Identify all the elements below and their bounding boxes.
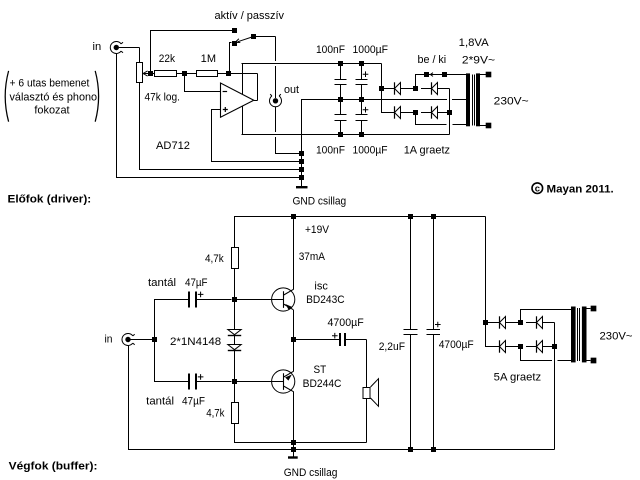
wire Q2 collector down <box>293 392 295 443</box>
wire down to speaker <box>366 340 368 388</box>
wire bottom return line <box>234 442 367 444</box>
svg-text:+19V: +19V <box>305 224 330 236</box>
wire down to ground bar <box>293 443 295 457</box>
wire output node to C9 <box>293 339 339 341</box>
T1 core line <box>474 75 476 126</box>
wire <box>438 112 450 114</box>
wire bridge2 right side down to ground rail <box>554 323 556 450</box>
svg-text:out: out <box>284 84 299 96</box>
ground bar (GND csillag, buffer) <box>288 456 298 458</box>
svg-text:4,7k: 4,7k <box>205 253 224 265</box>
wire <box>526 346 537 348</box>
resistor R3 4,7k body <box>232 248 239 269</box>
C2 polarity + <box>363 71 369 77</box>
wire to C5 <box>154 299 188 301</box>
wire row1 right <box>543 322 555 324</box>
node rail/C7 <box>408 214 413 219</box>
wire <box>506 346 521 348</box>
transformer T2 secondary winding bar <box>571 307 576 363</box>
wire AC2 toward transformer T1 <box>415 124 447 126</box>
wire +19V top rail <box>234 216 486 218</box>
wire center tap to transformer (after hop) <box>452 99 466 101</box>
diode D3 (1A graetz) <box>395 106 401 118</box>
svg-text:AD712: AD712 <box>156 140 190 152</box>
wire op-amp + input <box>211 109 221 111</box>
capacitor C9 4700uF plates <box>339 333 341 346</box>
diode D7 (5A graetz) <box>500 316 506 328</box>
node bridge B1 AC2 junction <box>413 110 418 115</box>
svg-text:1000µF: 1000µF <box>353 144 388 156</box>
wire AC2 down <box>415 113 417 125</box>
svg-text:2*1N4148: 2*1N4148 <box>170 336 221 348</box>
svg-text:GND csillag: GND csillag <box>293 196 347 208</box>
wire Q1 emitter down <box>293 310 295 340</box>
wire feedback top <box>228 73 258 75</box>
wire T1 primary bottom <box>480 125 486 127</box>
ground bar (GND csillag) <box>296 186 308 188</box>
wire out shield down (upper) <box>275 107 277 132</box>
node GND star junction <box>299 151 304 156</box>
wire cap lead <box>361 121 363 135</box>
node GND star junction <box>299 175 304 180</box>
svg-text:4700µF: 4700µF <box>328 317 364 329</box>
wire bridge row2 <box>381 112 395 114</box>
wire cap lead <box>340 64 342 80</box>
wire down to out jack (hop over +9V rail) <box>275 66 277 98</box>
svg-text:230V~: 230V~ <box>494 96 529 108</box>
wire AC2 down <box>520 347 522 361</box>
capacitor C8 4700uF plates <box>427 329 441 331</box>
node cap on -9V rail <box>338 132 343 137</box>
wire wiper up to switch <box>150 31 152 72</box>
wire cap lead <box>340 85 342 100</box>
capacitor C7 2,2uF plates <box>404 329 418 331</box>
svg-text:5A graetz: 5A graetz <box>494 371 542 383</box>
wire D6 to Q2 base node <box>234 351 236 382</box>
wire cap lead <box>340 100 342 115</box>
diode D1 (1A graetz) <box>395 82 401 94</box>
wire AC1 up <box>520 310 522 323</box>
C4 polarity + <box>363 107 369 113</box>
wire row2 right <box>543 346 553 348</box>
terminal T1 mains top <box>486 72 492 78</box>
wire J1 ground to star <box>116 177 302 179</box>
wire switch b down to R2 node <box>229 43 231 72</box>
svg-text:isc: isc <box>314 280 328 292</box>
wire base node to Q1 <box>234 299 272 301</box>
svg-text:4,7k: 4,7k <box>206 408 225 420</box>
svg-text:c: c <box>535 184 540 195</box>
capacitor C2 1000uF plates <box>356 79 368 81</box>
svg-text:4700µF: 4700µF <box>439 339 474 351</box>
wire J1 shield down <box>116 54 118 178</box>
svg-text:in: in <box>93 41 102 53</box>
switch SW2 pole <box>442 72 447 77</box>
resistor R1 22k body <box>155 71 177 77</box>
terminal T1 mains bottom <box>486 123 492 129</box>
C6 polarity + <box>198 374 204 380</box>
wire J3 shield down to ground rail <box>128 346 130 450</box>
wire +9V rail <box>242 63 382 65</box>
transformer T1 secondary winding bar <box>466 73 470 126</box>
wire GND mid rail (center tap) <box>301 99 447 101</box>
wire +rail down to bridge B1 <box>381 64 383 113</box>
wire T2 primary bottom <box>586 360 591 362</box>
diode D2 (1A graetz) <box>432 82 438 94</box>
svg-text:230V~: 230V~ <box>600 330 633 342</box>
node input split <box>152 337 157 342</box>
wire J3 to split node <box>131 339 155 341</box>
transformer T1 primary winding bar <box>476 73 480 126</box>
switch SW2 be/ki contact <box>424 72 429 77</box>
capacitor C6 47uF tantal plates <box>188 373 190 389</box>
wire out ground to star <box>275 153 302 155</box>
node bridge B2 AC2 junction <box>518 344 523 349</box>
switch SW1 contact b (aktiv) <box>232 41 237 46</box>
wire <box>421 88 432 90</box>
svg-text:Mayan 2011.: Mayan 2011. <box>547 184 614 196</box>
node Q1 base junction <box>232 297 237 302</box>
T2 core line <box>577 308 579 361</box>
node R1/R2 junction <box>182 71 187 76</box>
wire R4 down <box>234 423 236 443</box>
wire AC1 to transformer T2 <box>520 309 571 311</box>
pot wiper arrow <box>143 71 150 76</box>
node cap on GND rail <box>338 97 343 102</box>
wire <box>153 73 155 75</box>
wire pot bottom down <box>139 83 141 170</box>
svg-text:be / ki: be / ki <box>418 54 447 66</box>
node feedback junction <box>226 71 231 76</box>
wire ground bottom rail <box>128 449 555 451</box>
node Q2 base junction <box>232 379 237 384</box>
wire op-amp output <box>254 100 258 102</box>
svg-text:GND csillag: GND csillag <box>284 467 338 479</box>
wire pot ground to star <box>139 169 302 171</box>
wire T2 primary top <box>586 308 591 310</box>
transformer T2 primary winding bar <box>582 307 587 363</box>
svg-text:BD244C: BD244C <box>303 378 342 390</box>
node bridge B1 AC1 junction <box>413 86 418 91</box>
node GND star junction <box>299 159 304 164</box>
wire T1 primary top <box>480 74 486 76</box>
node C7 on ground rail <box>408 447 413 452</box>
capacitor C5 47uF tantal plates <box>188 291 231 307</box>
svg-text:2,2uF: 2,2uF <box>379 341 406 353</box>
C5 polarity + <box>198 292 204 298</box>
node bridge B1 DC- junction <box>447 110 452 115</box>
node cap on -9V rail <box>359 132 364 137</box>
wire down to out jack (upper) <box>275 37 277 62</box>
wire <box>401 112 416 114</box>
svg-text:+ 6 utas bemenet: + 6 utas bemenet <box>10 77 90 89</box>
connector J3 "in" (buffer input) <box>122 334 135 346</box>
wire C8 bottom lead <box>433 335 435 450</box>
wire C7 2,2uF top lead <box>410 217 412 330</box>
wire <box>506 322 521 324</box>
diode D5 1N4148 <box>228 330 241 336</box>
wire + input ground down <box>211 110 213 162</box>
wire cap lead <box>361 64 363 80</box>
copyright symbol <box>532 183 543 194</box>
wire <box>421 112 432 114</box>
diode D9 (5A graetz) <box>500 340 506 352</box>
svg-text:1A graetz: 1A graetz <box>404 144 450 156</box>
wire C9 to speaker <box>346 339 367 341</box>
resistor R2 1M body <box>197 71 218 77</box>
wire row1 right <box>438 88 450 90</box>
diode D10 (5A graetz) <box>537 340 543 352</box>
wire <box>217 73 229 75</box>
node output junction <box>291 337 296 342</box>
diode D8 (5A graetz) <box>537 316 543 328</box>
wire switch to transformer T1 <box>429 74 467 76</box>
wire bridge2 row1 <box>485 322 500 324</box>
node on ground rail <box>291 447 296 452</box>
wire C8 4700uF top lead <box>433 217 435 330</box>
svg-text:1000µF: 1000µF <box>353 44 389 56</box>
node bridge B2 DC+ junction <box>483 320 488 325</box>
wire out shield down (hop over -9V rail) <box>275 137 277 154</box>
svg-text:47µF: 47µF <box>182 396 205 408</box>
wire stub <box>229 42 232 44</box>
node cap on +9V rail <box>359 61 364 66</box>
resistor R4 4,7k body <box>232 403 239 424</box>
svg-text:Előfok (driver):: Előfok (driver): <box>8 193 92 205</box>
svg-text:47µF: 47µF <box>185 277 208 289</box>
connector J1 "in" (preamp input) <box>110 42 123 54</box>
wire <box>401 88 416 90</box>
svg-text:tantál: tantál <box>146 396 174 408</box>
wire AC2 to T1 (after hop) <box>452 124 466 126</box>
wire speaker return down <box>366 398 368 443</box>
svg-text:22k: 22k <box>159 53 176 65</box>
wire base node to Q2 <box>234 381 272 383</box>
potentiometer P1 47k log body <box>137 63 143 83</box>
wire AC2 toward transformer T2 <box>520 360 552 362</box>
transistor Q1 BD243C (isc) <box>272 288 295 311</box>
wire AC2 to T2 (after hop) <box>558 360 572 362</box>
svg-text:tantál: tantál <box>148 277 176 289</box>
switch SW1 pole <box>251 34 256 39</box>
wire GND star vertical <box>301 100 303 187</box>
wire to be/ki switch <box>415 74 426 76</box>
wire Q1 base node to D5 <box>234 300 236 330</box>
wire junction down <box>184 74 186 92</box>
node C8 on ground rail <box>431 447 436 452</box>
capacitor C4 1000uF plates <box>356 114 368 116</box>
svg-text:1,8VA: 1,8VA <box>459 37 490 49</box>
wire R1-R2 <box>176 73 196 75</box>
transistor Q2 BD244C (ST) <box>272 370 295 393</box>
svg-text:ST: ST <box>314 364 327 376</box>
wire op-amp supply vertical (V+/V-) <box>242 64 244 135</box>
node rail/Q1 collector <box>291 214 296 219</box>
svg-text:Végfok (buffer):: Végfok (buffer): <box>9 461 98 473</box>
wire -9V rail <box>242 134 450 136</box>
wire to op-amp inverting input <box>184 91 221 93</box>
svg-text:aktív / passzív: aktív / passzív <box>215 10 285 22</box>
wire C6 to Q2 base node <box>197 381 232 383</box>
note bracket left <box>5 71 8 122</box>
wire R3 to Q1 base node <box>234 268 236 300</box>
node bridge B2 AC1 junction <box>518 320 523 325</box>
switch SW2 arrow <box>430 73 433 77</box>
terminal T2 mains top <box>591 306 597 312</box>
wire bridge row1 <box>381 88 395 90</box>
node bridge B2 DC- junction <box>552 344 557 349</box>
switch SW1 contact a (passziv) <box>232 28 237 33</box>
wire bridge2 row2 <box>485 346 500 348</box>
svg-text:választó és phono: választó és phono <box>10 91 98 103</box>
node rail/C8 <box>431 214 436 219</box>
terminal T2 mains bottom <box>591 358 597 364</box>
wire bridge right side down to -9V rail <box>449 89 451 135</box>
T1 core line <box>472 75 474 126</box>
svg-text:fokozat: fokozat <box>34 105 69 117</box>
svg-text:2*9V~: 2*9V~ <box>462 54 495 66</box>
wire cap lead <box>361 100 363 115</box>
svg-text:47k log.: 47k log. <box>145 92 181 104</box>
svg-text:in: in <box>105 334 113 346</box>
svg-text:100nF: 100nF <box>316 44 345 56</box>
node wiper junction <box>148 71 153 76</box>
wire <box>526 322 537 324</box>
wire AC1 up <box>415 75 417 89</box>
wire D5 to D6 <box>234 336 236 345</box>
svg-text:37mA: 37mA <box>299 251 326 263</box>
node bridge B1 DC+ junction <box>379 86 384 91</box>
connector J2 "out" <box>270 94 282 107</box>
wire + input ground to star <box>211 161 302 163</box>
wire Q2 base node down to R4 <box>234 382 236 403</box>
C9 polarity + <box>332 333 338 339</box>
wire C5 to Q1 base node <box>197 299 232 301</box>
wire +19V rail down to bridge B2 <box>485 217 487 347</box>
wire C7 bottom lead <box>410 335 412 450</box>
node cap on GND rail <box>359 97 364 102</box>
capacitor C1 100nF plates <box>335 79 347 81</box>
diode D6 1N4148 <box>228 345 241 351</box>
svg-text:100nF: 100nF <box>316 144 345 156</box>
svg-text:1M: 1M <box>201 53 216 65</box>
wire to switch top contact <box>150 30 235 32</box>
wire Q1 collector up to rail <box>293 217 295 290</box>
wire feedback down to output <box>257 74 259 101</box>
note bracket right <box>95 71 98 122</box>
node collector/R4 junction <box>291 440 296 445</box>
wire rail down to R3 <box>234 217 236 248</box>
capacitor C3 100nF plates <box>335 114 347 116</box>
wire cap lead <box>361 85 363 100</box>
diode D4 (1A graetz) <box>432 106 438 118</box>
wire down to pot top <box>139 48 141 63</box>
node cap on +9V rail <box>338 61 343 66</box>
op-amp U1 AD712 <box>221 83 254 117</box>
C8 polarity + <box>435 322 441 328</box>
T2 core line <box>579 308 581 361</box>
wire to C6 <box>154 381 188 383</box>
wire J1 to pot <box>119 47 140 49</box>
wire input branch vertical <box>154 300 156 382</box>
speaker LS1 <box>363 388 370 399</box>
node GND star junction <box>299 167 304 172</box>
switch SW1 lever with arrow <box>235 37 252 43</box>
svg-text:BD243C: BD243C <box>306 294 345 306</box>
wire switch pole to out <box>253 36 276 38</box>
wire Q2 emitter up to output node <box>293 340 295 372</box>
wire cap lead <box>340 121 342 135</box>
